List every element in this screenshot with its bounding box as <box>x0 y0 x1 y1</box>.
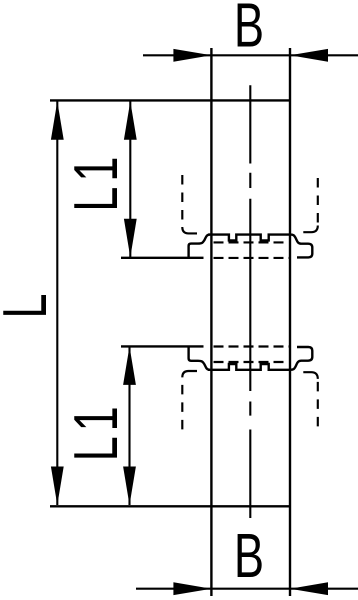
top jaw hidden outline right corner <box>303 226 318 233</box>
dimension line L1 bottom <box>128 346 130 505</box>
bottom edge of part <box>50 505 290 507</box>
top jaw clamping face <box>121 257 204 259</box>
top jaw hidden outline right vertical <box>317 178 319 224</box>
arrow L1 top up <box>124 101 137 140</box>
dimension line L <box>56 101 58 505</box>
arrow B top right <box>290 49 328 62</box>
top jaw hidden line mid <box>214 241 289 243</box>
top jaw hidden line at face level <box>214 257 292 259</box>
top jaw hidden outline left vertical <box>181 175 183 226</box>
svg-text:L1: L1 <box>61 402 131 462</box>
arrow L1 bottom down <box>123 467 136 506</box>
arrow B top left <box>173 49 211 62</box>
bottom jaw hidden outline right vertical <box>317 380 319 426</box>
bottom jaw left step profile <box>189 346 210 370</box>
arrow L down <box>51 467 64 506</box>
arrow L up <box>51 101 64 140</box>
arrow B bottom right <box>290 582 328 595</box>
svg-text:B: B <box>234 521 264 591</box>
top edge of part <box>50 99 290 101</box>
dimension line B bottom <box>136 588 358 590</box>
svg-text:L: L <box>0 293 60 318</box>
bottom jaw hidden outline left corner <box>182 371 197 377</box>
bottom jaw right step profile <box>291 347 313 370</box>
bottom jaw clamping face <box>121 345 204 347</box>
right rail vertical <box>289 48 291 596</box>
bottom jaw hidden line mid <box>214 361 289 363</box>
top jaw left step profile <box>189 235 210 259</box>
top jaw hidden outline left corner <box>182 227 197 233</box>
bottom jaw hidden line at face level <box>214 345 292 347</box>
arrow B bottom left <box>173 582 211 595</box>
arrow L1 top down <box>124 219 137 257</box>
svg-text:L1: L1 <box>61 152 131 212</box>
bottom jaw hidden outline left vertical <box>181 378 183 429</box>
bottom jaw hidden outline right corner <box>303 372 318 379</box>
left rail vertical <box>210 48 212 596</box>
dimension line L1 top <box>129 101 131 257</box>
svg-text:B: B <box>234 0 264 60</box>
top jaw right step profile <box>291 235 313 258</box>
top jaw serration line with grooves <box>208 235 291 241</box>
vertical centerline x=250.3 <box>249 85 251 518</box>
dimension line B top <box>143 54 358 56</box>
arrow L1 bottom up <box>123 346 136 385</box>
bottom jaw serration line with grooves <box>208 364 291 370</box>
